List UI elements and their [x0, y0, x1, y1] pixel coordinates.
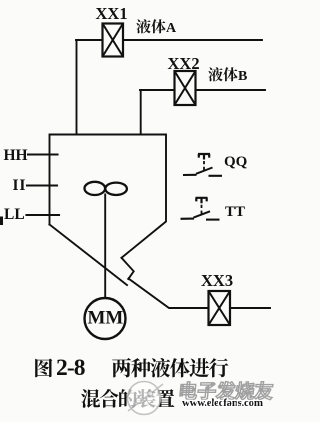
svg-text:2-8: 2-8	[56, 355, 86, 381]
svg-text:MM: MM	[88, 308, 124, 329]
scan mark left edge	[0, 217, 3, 226]
watermark text 电子发烧友	[179, 382, 273, 400]
svg-text:LL: LL	[4, 206, 25, 223]
wire: liquid B down pipe into tank	[140, 90, 142, 134]
node LL level sensor tick	[27, 214, 60, 216]
agitator impeller blades	[85, 182, 127, 195]
svg-text:HH: HH	[4, 147, 28, 164]
valve XX1	[103, 24, 124, 57]
svg-text:B: B	[238, 69, 247, 84]
switch QQ (high level contact)	[183, 154, 222, 176]
wire: agitator shaft	[104, 195, 106, 299]
svg-text:QQ: QQ	[224, 154, 248, 170]
node HH level sensor tick	[28, 153, 58, 155]
wire: liquid B feed pipe horizontal	[140, 89, 265, 91]
valve XX2	[175, 71, 196, 105]
wire: liquid A down pipe into tank	[76, 40, 78, 134]
tank vessel outline	[50, 135, 167, 286]
svg-text:XX1: XX1	[96, 4, 128, 23]
svg-text:II: II	[13, 177, 27, 194]
svg-text:www.elecfans.com: www.elecfans.com	[182, 397, 263, 409]
node II level sensor tick	[27, 184, 57, 186]
caption line 1: 图 2-8 两种液体进行	[35, 355, 228, 381]
caption line 2: 混合的装置	[81, 389, 174, 408]
svg-text:TT: TT	[225, 204, 245, 220]
svg-text:XX3: XX3	[201, 271, 233, 290]
label liquid B (液体B)	[208, 67, 247, 84]
svg-text:XX2: XX2	[168, 54, 200, 73]
wire: liquid A feed pipe horizontal	[76, 39, 262, 41]
valve XX3	[209, 291, 231, 325]
switch TT (low level contact)	[181, 198, 220, 220]
watermark logo circle	[128, 382, 164, 415]
svg-text:A: A	[166, 21, 177, 36]
label liquid A (液体A)	[136, 19, 177, 36]
motor M circle	[85, 298, 126, 339]
wire: tank outlet chute to valve XX3	[129, 279, 271, 309]
